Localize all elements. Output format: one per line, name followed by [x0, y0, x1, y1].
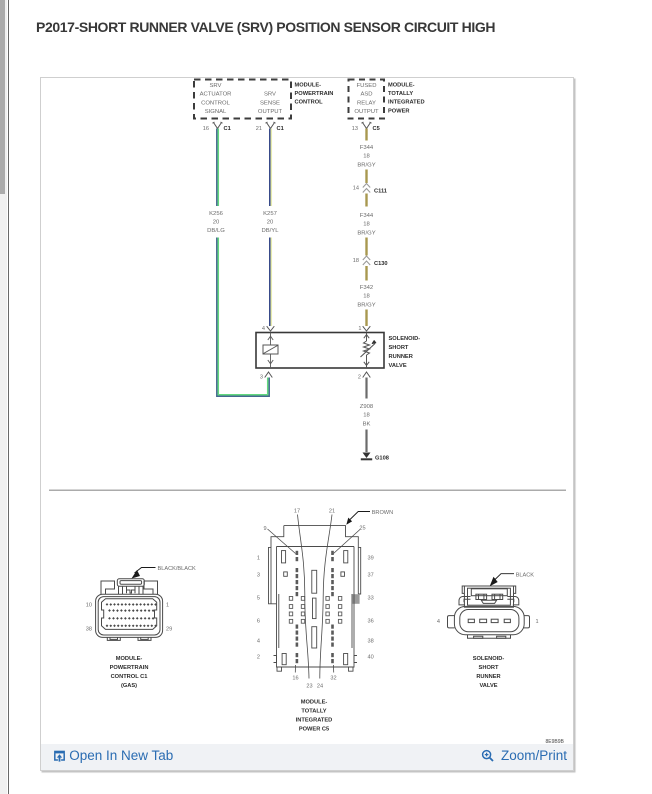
svg-text:POWER C5: POWER C5 [298, 727, 328, 733]
svg-text:1: 1 [358, 326, 361, 332]
wire K256 DB/LG segment 2 L-shape to solenoid pin 3 [216, 238, 268, 397]
svg-text:DB/LG: DB/LG [207, 228, 225, 234]
svg-text:BK: BK [362, 421, 370, 427]
srv pin slot 3 [479, 619, 486, 622]
svg-text:MODULE-: MODULE- [388, 82, 415, 88]
svg-text:18: 18 [363, 294, 370, 300]
solenoid pin 1 terminal [358, 326, 370, 332]
pcm callout arrow to BLACK/BLACK [131, 570, 140, 579]
svg-text:SHORT: SHORT [388, 345, 408, 351]
divider line [8, 0, 10, 794]
svg-text:38: 38 [367, 639, 373, 645]
svg-text:Z908: Z908 [359, 404, 373, 410]
scrollbar track [0, 0, 7, 794]
srv main body inner [459, 610, 518, 632]
svg-text:RUNNER: RUNNER [476, 674, 500, 680]
connector view MODULE-POWERTRAIN CONTROL C1 [95, 579, 162, 641]
wire F344 BR/GY segment 3 [365, 194, 367, 207]
svg-text:OUTPUT: OUTPUT [257, 109, 282, 115]
solenoid coil element with variable arrow [360, 333, 375, 369]
srv callout arrow to BLACK [489, 577, 497, 587]
svg-text:BR/GY: BR/GY [357, 302, 375, 308]
PCM pin function text: SRV SENSE OUTPUT [257, 92, 282, 115]
connector view MODULE-TOTALLY INTEGRATED POWER C5 [268, 526, 360, 672]
srv connector cap inner frame [471, 589, 507, 596]
tipm bottom slot left [282, 654, 286, 665]
svg-text:RELAY: RELAY [357, 100, 376, 106]
svg-text:18: 18 [352, 258, 358, 264]
srv latch block left [475, 594, 486, 599]
tipm pin callout numbers top [263, 509, 365, 533]
wire label F342 18 BR/GY [357, 285, 375, 308]
svg-text:CONTROL: CONTROL [201, 100, 231, 106]
svg-text:SRV: SRV [263, 92, 275, 98]
tipm center keyway 1 [311, 570, 316, 593]
svg-text:13: 13 [351, 126, 357, 132]
svg-text:F344: F344 [359, 213, 373, 219]
tipm bottom pin numbers [292, 676, 336, 690]
svg-text:VALVE: VALVE [388, 363, 406, 369]
svg-text:C1: C1 [223, 126, 230, 132]
svg-text:MODULE-: MODULE- [115, 656, 142, 662]
svg-text:25: 25 [359, 526, 365, 532]
svg-text:TOTALLY: TOTALLY [388, 91, 413, 97]
tipm bottom slot right [343, 654, 347, 665]
wire F344 BR/GY segment 1 [365, 129, 367, 141]
svg-text:CONTROL: CONTROL [294, 100, 323, 106]
tipm connector right outer wall [358, 547, 360, 594]
tipm connector lower body walls [276, 547, 354, 668]
svg-text:4: 4 [261, 326, 264, 332]
svg-text:VALVE: VALVE [479, 683, 497, 689]
scrollbar thumb [0, 0, 5, 194]
pin 16 C1 terminal [202, 122, 230, 132]
solenoid-short runner valve box [256, 333, 384, 369]
label MODULE-POWERTRAIN CONTROL [294, 82, 333, 105]
svg-text:9: 9 [263, 526, 266, 532]
svg-text:CONTROL C1: CONTROL C1 [110, 674, 147, 680]
svg-text:29: 29 [166, 627, 172, 633]
tipm center keyway 3 [311, 627, 316, 648]
srv pin slot 1 [504, 619, 510, 622]
svg-text:INTEGRATED: INTEGRATED [295, 718, 332, 724]
separator line [49, 489, 566, 491]
pin 21 C1 terminal [255, 122, 283, 132]
wire F342 BR/GY segment 6 to solenoid pin 1 [365, 310, 367, 327]
svg-text:C111: C111 [374, 189, 387, 195]
tipm side pin numbers left [256, 556, 259, 661]
tipm small square left [283, 572, 287, 576]
open in new tab link [53, 748, 174, 763]
srv pin numbers 4 and 1 [436, 619, 538, 625]
svg-text:DB/YL: DB/YL [261, 228, 279, 234]
solenoid pin 2 terminal [357, 372, 369, 381]
label MODULE-POWERTRAIN CONTROL C1 (GAS) [109, 656, 148, 689]
pcm pin numbers 10 1 38 29 [85, 603, 171, 633]
svg-text:C1: C1 [276, 126, 283, 132]
wire K257 DB/YL segment 2 to solenoid pin 4 [269, 238, 271, 327]
wire Z908 BK segment 2 [365, 430, 367, 453]
tipm callout line 17 [297, 515, 309, 679]
svg-text:2: 2 [256, 655, 259, 661]
tipm connector left outer wall [268, 547, 276, 603]
svg-text:ASD: ASD [360, 92, 372, 98]
tipm callout line 32 [332, 665, 334, 673]
svg-text:FUSED: FUSED [356, 83, 376, 89]
pcm connector outer body [95, 594, 162, 637]
svg-text:18: 18 [363, 154, 370, 160]
svg-text:POWER: POWER [388, 108, 410, 114]
svg-text:20: 20 [212, 220, 219, 226]
svg-text:MODULE-: MODULE- [294, 82, 321, 88]
svg-text:TOTALLY: TOTALLY [301, 709, 326, 715]
solenoid valve element (box with slash) [263, 345, 278, 354]
tipm connector right gray tab [352, 594, 359, 604]
srv main body outer [454, 606, 524, 634]
svg-text:4: 4 [436, 619, 439, 625]
srv bottom bar [467, 635, 510, 638]
label SOLENOID-SHORT RUNNER VALVE [388, 336, 420, 369]
svg-text:17: 17 [293, 509, 299, 515]
svg-text:C130: C130 [374, 261, 388, 267]
solenoid internal left lead with arrows [267, 333, 272, 369]
svg-text:BLACK/BLACK: BLACK/BLACK [157, 566, 196, 572]
pcm connector right latch tab [144, 581, 158, 594]
wire label K257 20 DB/YL [261, 211, 279, 234]
svg-text:BLACK: BLACK [515, 572, 534, 578]
wire K256 DB/LG segment 1 [216, 129, 218, 207]
srv connector cap outer [464, 586, 513, 607]
tipm callout line 25 [333, 529, 360, 554]
svg-text:38: 38 [85, 627, 91, 633]
svg-text:21: 21 [328, 509, 334, 515]
srv side wing right [523, 616, 529, 628]
svg-text:F344: F344 [359, 145, 373, 151]
tipm connector cap outline [271, 526, 358, 594]
svg-text:C5: C5 [372, 126, 379, 132]
svg-text:16: 16 [292, 676, 298, 682]
pcm connector pin dots [105, 603, 156, 627]
svg-text:2: 2 [357, 375, 360, 381]
svg-text:SRV: SRV [209, 83, 221, 89]
wire label F344 18 BR/GY (2) [357, 213, 375, 236]
svg-text:23: 23 [306, 684, 312, 690]
svg-text:K257: K257 [263, 211, 277, 217]
svg-text:INTEGRATED: INTEGRATED [388, 100, 425, 106]
svg-text:1: 1 [256, 556, 259, 562]
svg-text:33: 33 [367, 596, 373, 602]
tipm pin field dashes and squares [295, 551, 333, 663]
wire K257 DB/YL segment 1 [269, 129, 271, 207]
wire F342 BR/GY segment 5 [365, 266, 367, 281]
tipm callout line 16 [294, 665, 296, 673]
svg-text:6: 6 [256, 619, 259, 625]
svg-text:14: 14 [352, 186, 358, 192]
title [36, 19, 495, 35]
svg-text:4: 4 [256, 639, 259, 645]
tipm callout line 21 [319, 515, 331, 679]
tipm callout BROWN arrow [346, 518, 352, 525]
tipm top slot left [281, 551, 285, 563]
tipm side pin numbers right [367, 556, 373, 661]
svg-text:3: 3 [259, 375, 262, 381]
svg-text:BR/GY: BR/GY [357, 162, 375, 168]
svg-text:37: 37 [367, 573, 373, 579]
svg-text:SENSE: SENSE [260, 100, 280, 106]
svg-text:16: 16 [202, 126, 208, 132]
srv ear hook right [507, 597, 519, 605]
tipm connector inner top line [276, 546, 354, 548]
svg-text:K256: K256 [209, 211, 223, 217]
srv side wing left [447, 616, 454, 628]
tiny doc number [546, 739, 564, 745]
label MODULE-TOTALLY INTEGRATED POWER [388, 82, 425, 114]
svg-text:SOLENOID-: SOLENOID- [472, 656, 504, 662]
svg-text:MODULE-: MODULE- [300, 700, 327, 706]
zoom/print link [481, 748, 567, 763]
module box PCM dashed outline [194, 80, 291, 119]
PCM pin function text: SRV ACTUATOR CONTROL SIGNAL [199, 83, 231, 115]
svg-text:36: 36 [367, 619, 373, 625]
pcm connector center latch [117, 579, 144, 586]
wire F344 BR/GY segment 2 [365, 170, 367, 184]
svg-text:32: 32 [330, 676, 336, 682]
svg-text:OUTPUT: OUTPUT [354, 109, 379, 115]
svg-text:24: 24 [316, 684, 322, 690]
pcm connector left latch tab [101, 581, 115, 594]
srv ear hook left [458, 597, 470, 605]
label SOLENOID-SHORT RUNNER VALVE (connector) [472, 656, 504, 689]
svg-text:18: 18 [363, 222, 370, 228]
pin 13 C5 terminal [351, 122, 379, 132]
svg-text:5: 5 [256, 596, 259, 602]
svg-text:BR/GY: BR/GY [357, 230, 375, 236]
svg-text:10: 10 [85, 603, 91, 609]
svg-text:F342: F342 [359, 285, 372, 291]
solenoid coil arrowhead [372, 341, 376, 344]
svg-text:20: 20 [266, 220, 273, 226]
tipm top slot right [343, 551, 347, 563]
srv pin slot 2 [491, 619, 498, 622]
svg-text:18: 18 [363, 413, 370, 419]
srv latch block right [492, 594, 503, 599]
srv latch center trapezoid [481, 600, 496, 603]
tipm callout line 9 [267, 529, 295, 554]
wire F344 BR/GY segment 4 [365, 238, 367, 256]
srv pin slot 4 [468, 619, 474, 622]
svg-text:3: 3 [256, 573, 259, 579]
TIPM pin function text: FUSED ASD RELAY OUTPUT [354, 83, 379, 115]
ground G108 symbol [360, 453, 388, 462]
svg-text:1: 1 [535, 619, 538, 625]
svg-text:ACTUATOR: ACTUATOR [199, 92, 231, 98]
wire Z908 BK segment 1 [365, 378, 367, 399]
svg-text:(GAS): (GAS) [120, 683, 136, 689]
inline connector C130 pin 18 [352, 256, 387, 267]
solenoid pin 3 terminal [259, 372, 271, 381]
svg-text:SIGNAL: SIGNAL [204, 109, 226, 115]
svg-text:POWERTRAIN: POWERTRAIN [294, 91, 333, 97]
svg-text:POWERTRAIN: POWERTRAIN [109, 665, 148, 671]
svg-text:40: 40 [367, 655, 373, 661]
srv connector cap side tabs [462, 586, 516, 593]
pcm connector inner pin cavity [101, 599, 156, 630]
wire label F344 18 BR/GY [357, 145, 375, 168]
svg-text:RUNNER: RUNNER [388, 354, 412, 360]
connector view SOLENOID-SHORT RUNNER VALVE [447, 586, 529, 638]
svg-text:1: 1 [166, 603, 169, 609]
pcm connector bottom feet [107, 637, 120, 640]
tipm connector bottom edge and feet [277, 667, 353, 671]
solenoid pin 4 terminal [261, 326, 273, 332]
inline connector C111 pin 14 [352, 184, 386, 195]
diagram panel [40, 77, 575, 771]
svg-text:G108: G108 [375, 456, 389, 462]
wire label K256 20 DB/LG [207, 211, 225, 234]
module box TIPM dashed outline [348, 80, 384, 119]
svg-text:SHORT: SHORT [478, 665, 498, 671]
svg-text:39: 39 [367, 556, 373, 562]
wire label Z908 18 BK [359, 404, 373, 427]
tipm center keyway 2 [312, 598, 316, 619]
label MODULE-TOTALLY INTEGRATED POWER C5 [295, 700, 332, 733]
tipm small square right [340, 572, 344, 576]
svg-text:BROWN: BROWN [371, 510, 392, 516]
svg-text:SOLENOID-: SOLENOID- [388, 336, 420, 342]
svg-text:21: 21 [255, 126, 261, 132]
